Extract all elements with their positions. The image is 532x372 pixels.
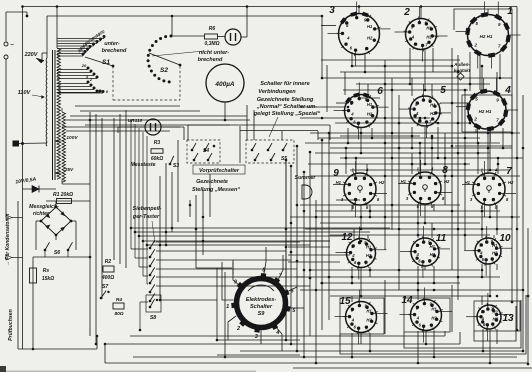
wire S9 left <box>232 260 234 275</box>
wire row4-5 <box>330 295 490 297</box>
resistor R4 80 <box>113 297 124 317</box>
svg-text:H2: H2 <box>366 317 372 322</box>
label UR110 <box>128 118 143 124</box>
svg-text:H2: H2 <box>493 316 499 321</box>
svg-text:4: 4 <box>504 85 511 96</box>
wire Vorpruef drops <box>281 131 283 140</box>
wire drop row4 <box>433 266 435 283</box>
wire mid-left vert <box>125 110 127 268</box>
wire S6 common <box>33 250 90 257</box>
tube socket 12 <box>336 227 387 280</box>
wire drop row3 <box>489 205 491 217</box>
wire drop row3 <box>433 204 435 211</box>
svg-text:11: 11 <box>436 233 447 244</box>
wire nested corner bl1 <box>217 354 300 356</box>
tube socket 10 <box>464 226 512 276</box>
wire mid verticals <box>195 195 197 236</box>
wire under meter <box>239 126 241 163</box>
svg-text:14: 14 <box>401 295 413 306</box>
svg-text:H2 H1: H2 H1 <box>480 34 493 39</box>
svg-text:H1: H1 <box>366 308 372 313</box>
svg-text:3: 3 <box>255 334 258 340</box>
wires S9 contacts <box>222 247 304 351</box>
svg-text:H2 H1: H2 H1 <box>479 109 492 114</box>
rotary switch S2 contact arc <box>147 35 173 84</box>
wire row1-2 <box>340 71 462 73</box>
transformer T1 secondary winding (tapped) <box>57 48 61 179</box>
svg-text:brechend: brechend <box>102 48 127 54</box>
wire drop row5 <box>482 329 484 351</box>
wire drop row1 <box>409 48 411 84</box>
wire drop row2 <box>424 127 426 164</box>
wire under meter <box>246 105 248 140</box>
svg-text:H2: H2 <box>492 251 498 256</box>
wire column vert <box>451 48 453 270</box>
wire S9 left <box>217 339 300 341</box>
meter M2 400uA <box>206 64 244 102</box>
wire mid vert <box>171 172 173 232</box>
svg-text:220V: 220V <box>24 52 39 58</box>
wire drop row5 <box>417 331 419 363</box>
wire Vorpruef drops <box>187 125 189 140</box>
wire row3-4 <box>320 222 480 224</box>
bridge rectifier <box>40 206 73 237</box>
svg-text:2: 2 <box>236 326 240 332</box>
svg-text:1: 1 <box>507 6 513 17</box>
wire row3-4 <box>290 216 520 218</box>
wire meter M2 lead <box>224 102 226 120</box>
wire drop row4 <box>369 267 371 277</box>
wire rise row4 <box>481 229 483 238</box>
wire row2-3 <box>318 137 480 139</box>
dashed link S1-S2 <box>113 66 180 100</box>
wire above Vorpruef <box>188 124 330 126</box>
label Aussenkontakt <box>453 62 471 80</box>
svg-text:9: 9 <box>333 168 339 179</box>
svg-text:110V: 110V <box>18 90 32 96</box>
wire drop row5 <box>360 333 362 344</box>
wire center bus <box>328 133 330 320</box>
meter M1 <box>225 29 241 45</box>
wire extra <box>440 102 470 104</box>
svg-text:S9: S9 <box>258 311 266 317</box>
wire rise row2 <box>469 78 471 91</box>
svg-text:H1: H1 <box>426 25 432 30</box>
wire drop row5 <box>496 329 498 344</box>
tube socket 13 <box>466 293 514 341</box>
wire S9 left <box>216 268 218 340</box>
wire drop row3 <box>424 204 426 223</box>
frame around socket 14 <box>404 298 450 332</box>
svg-text:H1: H1 <box>366 245 372 250</box>
wire extra left <box>66 130 170 132</box>
wire extra <box>336 102 348 104</box>
wire rise row3 <box>411 153 413 174</box>
terminal Kondensatoren 2 <box>6 255 23 260</box>
svg-text:20: 20 <box>81 63 87 68</box>
wire mid-left vert <box>113 118 115 260</box>
wire rise row3 <box>431 138 433 173</box>
resistor R2 400 <box>101 259 114 281</box>
svg-text:S7: S7 <box>102 284 109 290</box>
wire rise row4 <box>367 235 369 239</box>
wire rise row2 <box>367 84 369 95</box>
svg-text:gelegt Stellung „Spezial“: gelegt Stellung „Spezial“ <box>253 111 321 117</box>
frame around socket 13 <box>474 301 520 331</box>
wire rise row2 <box>496 72 498 91</box>
wire mid-left vert <box>101 118 103 299</box>
wire drop row4 <box>424 266 426 270</box>
wire row2-3 <box>305 142 500 144</box>
terminal Kondensatoren 1 <box>6 215 23 220</box>
meter M3 UR110 <box>145 119 161 135</box>
wire nested corner br3 <box>340 295 526 354</box>
wire left bus <box>22 7 24 350</box>
svg-text:H2: H2 <box>508 180 514 185</box>
transformer T1 primary winding 220V/110V <box>13 53 48 147</box>
wire right bus <box>522 95 524 351</box>
svg-text:Stellung „Messen“: Stellung „Messen“ <box>192 187 240 193</box>
wire mid vert <box>159 176 161 300</box>
wire column vert <box>464 90 466 250</box>
wire row4-5 <box>320 282 460 284</box>
wire drop row4 <box>351 267 353 283</box>
wire drop row3 <box>351 205 353 211</box>
wire drop row4 <box>496 264 498 270</box>
wire top bus <box>23 6 518 8</box>
svg-text:R2: R2 <box>105 259 112 265</box>
wire drop row2 <box>411 127 413 148</box>
wire mid-left vert <box>89 112 91 336</box>
label S2 <box>160 67 168 74</box>
wire row2-3 <box>310 132 520 134</box>
wire rise row3 <box>419 143 421 173</box>
wire drop row2 <box>502 128 504 148</box>
wire mid vert <box>177 140 179 222</box>
wire mid-left <box>85 124 230 126</box>
wire drop row4 <box>489 264 491 296</box>
svg-text:Rs: Rs <box>43 268 50 274</box>
wire rise row4 <box>353 229 355 239</box>
svg-text:25V: 25V <box>64 167 74 173</box>
wire column vert <box>384 60 386 250</box>
wire row2-3 <box>340 157 523 159</box>
wire row2-3 <box>308 163 470 165</box>
tube socket 14 <box>400 288 453 343</box>
svg-text:3: 3 <box>329 5 335 16</box>
svg-text:H2: H2 <box>367 112 373 117</box>
wire S9 right <box>288 261 340 263</box>
svg-text:Außen-: Außen- <box>453 62 470 67</box>
wire rise row2 <box>481 66 483 91</box>
label Pruefbuchsen <box>8 309 14 341</box>
S1 tap wires and contacts <box>57 29 109 94</box>
Siebenpol-Taster contact chain <box>149 240 155 302</box>
wire nested corner br1 <box>474 306 516 341</box>
svg-text:S2: S2 <box>160 67 168 74</box>
wire right of text <box>326 65 328 112</box>
svg-text:Schalter: Schalter <box>250 304 273 310</box>
wire br stub <box>459 332 461 344</box>
wire bottom bus <box>130 335 445 337</box>
wire mid verticals <box>209 174 211 217</box>
svg-text:H2: H2 <box>430 111 436 116</box>
tube socket 2 <box>395 7 448 62</box>
wire left bus 2 <box>17 201 19 349</box>
svg-text:10: 10 <box>499 233 511 244</box>
wire mid vert <box>165 163 167 245</box>
wire mid-left <box>75 105 180 107</box>
svg-text:Elektrodes-: Elektrodes- <box>246 297 277 303</box>
wire mid-left vert <box>119 114 121 264</box>
svg-text:ger-Taster: ger-Taster <box>132 214 160 220</box>
wire S9 left <box>224 272 226 357</box>
tube socket 4 <box>456 78 518 142</box>
wire bottom left risers <box>96 336 98 349</box>
wire column vert <box>384 280 386 334</box>
wire row2-3 <box>350 169 510 171</box>
wire column vert <box>451 285 453 332</box>
svg-text:Gezeichnete Stellung: Gezeichnete Stellung <box>257 97 314 103</box>
svg-text:Verbindungen: Verbindungen <box>258 89 296 95</box>
svg-text:12: 12 <box>341 232 353 243</box>
svg-text:H2: H2 <box>431 315 437 320</box>
svg-text:R1 20kΩ: R1 20kΩ <box>53 192 73 198</box>
wire drop row2 <box>371 128 373 138</box>
wire extra left <box>62 126 180 128</box>
wire bottom bus <box>105 362 528 364</box>
leader Siebenpol-Taster <box>152 221 155 243</box>
svg-text:7: 7 <box>506 166 512 177</box>
svg-text:R4: R4 <box>116 297 122 303</box>
resistor Rs 15k <box>30 257 55 295</box>
svg-text:8: 8 <box>442 165 448 176</box>
wire bus 2 <box>47 15 322 17</box>
svg-text:Schalter für innere: Schalter für innere <box>260 81 309 87</box>
wire extra <box>358 97 380 99</box>
wire center bus <box>290 166 292 344</box>
wire Vorpruef drops <box>317 131 319 140</box>
svg-text:S8: S8 <box>150 315 156 321</box>
wire socket top stub <box>420 7 422 19</box>
svg-text:H2: H2 <box>379 180 385 185</box>
svg-text:brechend: brechend <box>198 57 223 63</box>
wire extra <box>335 122 470 124</box>
wire rise row2 <box>431 84 433 96</box>
svg-text:15: 15 <box>339 296 351 307</box>
wire center bus <box>315 200 317 363</box>
wire mains up hook <box>6 12 28 41</box>
svg-text:~: ~ <box>10 43 14 49</box>
wire drop row3 <box>369 205 371 217</box>
wire rise row5 <box>351 296 353 302</box>
svg-text:5: 5 <box>440 85 446 96</box>
wire rise row3 <box>487 133 489 174</box>
wire S9 right <box>288 254 350 256</box>
frame around socket 1 <box>454 9 512 62</box>
svg-text:S4: S4 <box>203 148 209 154</box>
svg-text:13: 13 <box>502 313 514 324</box>
wire meter M3 leads <box>118 127 184 140</box>
resistor R3 60k <box>151 140 163 162</box>
label Schalter fuer innere Verbindungen <box>253 81 321 117</box>
wire extra <box>300 117 430 119</box>
svg-text:unter-: unter- <box>104 41 120 47</box>
switch S6 <box>36 242 76 256</box>
wire extra <box>300 240 330 242</box>
svg-text:1: 1 <box>226 304 229 310</box>
tube socket 6 <box>334 83 389 140</box>
svg-text:2: 2 <box>473 42 477 47</box>
wire drop row1 <box>432 48 434 72</box>
label 10V/0,5A <box>15 177 37 186</box>
wire socket top stub <box>487 9 489 15</box>
wire center bus <box>296 146 298 351</box>
svg-text:H2: H2 <box>426 34 432 39</box>
wire bridge to S6 <box>36 201 76 244</box>
label Vorpruefschalter <box>193 165 245 174</box>
wire mains down-left <box>5 59 7 217</box>
wire drop row4 <box>481 264 483 277</box>
wire extra <box>336 199 360 201</box>
svg-text:H2: H2 <box>367 36 373 41</box>
svg-text:H2: H2 <box>366 253 372 258</box>
wire rise row2 <box>411 78 413 96</box>
wire S9 feed <box>196 267 232 269</box>
wire row1-2 <box>343 89 468 91</box>
wire bottom left <box>18 348 97 350</box>
label 110V <box>18 90 32 96</box>
tube socket 11 <box>400 226 450 278</box>
wire extra <box>300 106 345 108</box>
wire <box>89 120 91 127</box>
wire mid-left vert <box>95 114 97 344</box>
wire column vert <box>398 95 400 290</box>
wire row3-4 <box>330 234 490 236</box>
label Gezeichnete Stellung Messen <box>192 179 240 193</box>
wire drop row2 <box>489 129 491 170</box>
wire extra <box>455 145 512 147</box>
wire center bus <box>303 172 305 357</box>
wire rise row3 <box>366 164 368 174</box>
svg-text:Gezeichnete: Gezeichnete <box>196 179 228 185</box>
wire br stub <box>444 331 446 336</box>
svg-text:Prüfbuchsen: Prüfbuchsen <box>8 309 14 341</box>
wire drop row1 <box>499 54 501 78</box>
wire bottom left risers <box>104 344 106 363</box>
wire row1-2 <box>321 25 336 27</box>
wire center bus <box>285 160 287 340</box>
S2 switch arm <box>149 53 181 66</box>
scan mark bottom edge <box>6 371 256 372</box>
wire row3-4 <box>300 204 460 206</box>
svg-text:400µA: 400µA <box>214 81 235 88</box>
tube socket 15 <box>335 290 388 345</box>
switch S8 <box>146 295 161 321</box>
svg-text:H1: H1 <box>367 24 373 29</box>
svg-text:R3: R3 <box>154 140 161 146</box>
tube socket 9 <box>333 161 387 217</box>
svg-text:S6: S6 <box>54 250 60 256</box>
transformer T1 core <box>53 50 56 180</box>
svg-text:S1: S1 <box>102 59 110 66</box>
wire mid verticals <box>202 190 204 255</box>
mains terminal lower <box>4 55 8 59</box>
wire drop row1 <box>469 52 471 84</box>
wire drop row2 <box>347 128 349 143</box>
svg-text:H1: H1 <box>367 102 373 107</box>
wire drop row3 <box>481 205 483 229</box>
label Messgleichrichter <box>29 204 59 217</box>
svg-text:H2: H2 <box>430 252 436 257</box>
wire right bus <box>511 62 513 302</box>
wire drop row1 <box>364 54 366 72</box>
wire row1-2 <box>356 83 490 85</box>
buzzer Summer <box>295 175 317 199</box>
tube socket 1 <box>456 2 521 69</box>
wire secondary top lead <box>56 7 58 49</box>
svg-text:2: 2 <box>403 7 410 18</box>
svg-text:4: 4 <box>275 330 279 336</box>
wire rise row4 <box>431 223 433 238</box>
wire bottom bus <box>293 367 532 369</box>
wire rise row2 <box>344 72 346 95</box>
Siebenpol-Taster nested feed wires <box>131 120 390 284</box>
wire rise row3 <box>345 148 347 174</box>
svg-text:H1: H1 <box>431 306 437 311</box>
wire drop row1 <box>479 55 481 90</box>
svg-text:H1: H1 <box>430 103 436 108</box>
label 220V <box>24 52 39 58</box>
wire extra <box>310 175 520 177</box>
wire row1-2 <box>322 77 512 79</box>
wire drop row1 <box>424 50 426 90</box>
wire drop row5 <box>489 329 491 363</box>
wire S9 feed <box>195 236 197 268</box>
wire nested corner left-col <box>285 160 287 340</box>
label Siebenpol-Geraete-Taster <box>132 206 162 220</box>
wire row1-2 <box>321 59 460 61</box>
wire rise row3 <box>355 158 357 174</box>
wire bottom bus <box>240 350 523 352</box>
transformer secondary lower winding <box>62 108 90 184</box>
wire mid-left <box>80 110 200 112</box>
scan mark bottom-left <box>0 366 6 372</box>
wire row3-4 <box>315 210 500 212</box>
wire center bus <box>321 140 323 330</box>
wire Vorpruef drops <box>329 125 331 140</box>
tube socket 3 <box>328 2 391 67</box>
wire row4-5 <box>300 289 523 291</box>
wire drop row2 <box>475 129 477 133</box>
label 25V <box>55 167 74 174</box>
Siebenpol-Taster output wires <box>140 242 310 330</box>
wire row2-3 <box>330 147 512 149</box>
wire row4-5 <box>310 269 480 271</box>
svg-text:UR110: UR110 <box>128 118 143 124</box>
Elektroden-Schalter S9 <box>226 268 296 341</box>
svg-text:Vorprüfschalter: Vorprüfschalter <box>199 168 240 174</box>
wire column vert <box>444 133 446 205</box>
wire mid-left <box>66 119 250 121</box>
wire row3-4 <box>305 228 512 230</box>
label unterbrechend <box>102 41 127 54</box>
wire to S2 <box>171 16 173 36</box>
wire row2-3 <box>315 152 490 154</box>
wire S2 arm leader <box>152 51 204 56</box>
label 100V <box>55 135 78 142</box>
diode D1 <box>23 186 57 193</box>
